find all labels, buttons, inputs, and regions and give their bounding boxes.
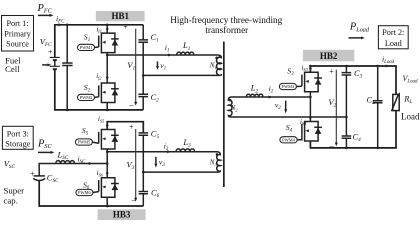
svg-text:HB2: HB2 xyxy=(320,51,338,61)
svg-text:C6: C6 xyxy=(151,187,160,199)
svg-text:CL: CL xyxy=(367,95,376,107)
svg-text:iFC: iFC xyxy=(56,14,65,25)
svg-text:PWM1: PWM1 xyxy=(80,45,93,50)
svg-text:PFC: PFC xyxy=(37,3,53,15)
svg-text:Super: Super xyxy=(4,185,25,195)
svg-text:S4: S4 xyxy=(286,123,293,134)
svg-text:RL: RL xyxy=(403,93,412,105)
svg-text:N3: N3 xyxy=(209,159,218,167)
svg-text:i1: i1 xyxy=(165,43,170,54)
svg-text:VSC: VSC xyxy=(4,159,16,171)
svg-text:iS4: iS4 xyxy=(300,119,307,126)
svg-text:C5: C5 xyxy=(151,129,160,141)
svg-text:S2: S2 xyxy=(84,83,91,94)
svg-text:if1: if1 xyxy=(97,26,102,33)
svg-text:cap.: cap. xyxy=(4,196,18,206)
svg-text:PWM5: PWM5 xyxy=(78,140,91,145)
svg-text:C4: C4 xyxy=(353,132,362,144)
svg-text:S6: S6 xyxy=(83,180,90,191)
svg-text:PSC: PSC xyxy=(37,138,52,150)
svg-text:PLoad: PLoad xyxy=(349,22,370,34)
svg-text:V1: V1 xyxy=(127,60,135,72)
svg-text:i2: i2 xyxy=(269,84,274,95)
svg-text:V3: V3 xyxy=(127,159,135,171)
svg-text:C3: C3 xyxy=(354,68,363,80)
svg-text:Port 1:: Port 1: xyxy=(6,19,28,28)
svg-text:Primary: Primary xyxy=(4,29,31,38)
svg-text:Port 3:: Port 3: xyxy=(7,130,29,139)
svg-text:HB1: HB1 xyxy=(111,11,129,21)
svg-text:L3: L3 xyxy=(182,137,191,149)
svg-text:+: + xyxy=(329,67,334,76)
svg-text:High-frequency three-winding: High-frequency three-winding xyxy=(170,15,282,25)
svg-text:Cell: Cell xyxy=(5,64,20,74)
svg-text:iLoad: iLoad xyxy=(382,54,395,65)
svg-text:N2: N2 xyxy=(230,104,239,112)
svg-text:−: − xyxy=(329,141,334,151)
svg-text:iS5: iS5 xyxy=(98,116,105,123)
svg-text:Load: Load xyxy=(401,112,420,122)
svg-text:Load: Load xyxy=(385,39,402,48)
svg-text:LSC: LSC xyxy=(57,150,69,162)
svg-text:L1: L1 xyxy=(182,40,191,52)
svg-text:HB3: HB3 xyxy=(113,210,131,220)
svg-text:v3: v3 xyxy=(159,157,165,168)
svg-text:if2: if2 xyxy=(96,73,102,80)
svg-text:−: − xyxy=(129,100,134,110)
svg-text:−: − xyxy=(131,196,136,206)
svg-text:iSC: iSC xyxy=(78,154,87,165)
svg-text:+: + xyxy=(123,22,128,31)
svg-text:CSC: CSC xyxy=(47,172,59,184)
svg-text:v1: v1 xyxy=(160,61,166,72)
svg-text:PWM6: PWM6 xyxy=(78,190,91,195)
svg-text:iS6: iS6 xyxy=(97,170,104,177)
svg-text:PWM2: PWM2 xyxy=(80,95,93,100)
svg-text:transformer: transformer xyxy=(205,25,248,35)
svg-text:PWM3: PWM3 xyxy=(282,84,295,89)
svg-text:+: + xyxy=(30,169,35,178)
svg-text:PWM4: PWM4 xyxy=(282,137,295,142)
svg-text:L2: L2 xyxy=(250,83,259,95)
svg-text:S5: S5 xyxy=(82,126,89,137)
svg-text:i3: i3 xyxy=(164,142,169,153)
svg-text:V2: V2 xyxy=(328,97,336,109)
svg-text:C2: C2 xyxy=(151,92,160,104)
svg-text:C1: C1 xyxy=(151,32,160,44)
svg-text:S3: S3 xyxy=(287,66,294,77)
svg-text:Source: Source xyxy=(6,40,29,49)
svg-text:+: + xyxy=(129,123,134,132)
svg-text:iS3: iS3 xyxy=(302,65,309,72)
svg-text:Storage: Storage xyxy=(5,139,30,148)
svg-text:S1: S1 xyxy=(84,33,90,44)
svg-text:N1: N1 xyxy=(209,62,217,70)
svg-text:+: + xyxy=(48,48,53,57)
svg-text:Port 2:: Port 2: xyxy=(382,28,404,37)
svg-text:v2: v2 xyxy=(275,100,281,111)
svg-text:VFC: VFC xyxy=(40,36,52,48)
svg-text:VLoad: VLoad xyxy=(403,74,419,85)
